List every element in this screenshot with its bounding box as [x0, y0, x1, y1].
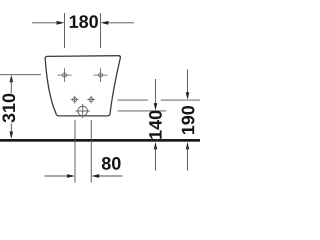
dim 190: lower arrowhead (below floor, points up) [186, 142, 190, 149]
lower right fixing hole crosshair [87, 96, 95, 104]
upper left mounting hole crosshair [58, 68, 72, 82]
dim 180: left arrow shaft [32, 22, 58, 24]
dim 80: left arrowhead [67, 174, 75, 178]
dim 180: left arrowhead [57, 21, 65, 25]
dim 180: right arrow shaft [108, 22, 134, 24]
dim 140: leader line [118, 110, 167, 112]
dim 140: upper shaft [155, 79, 157, 104]
dim 190: lower shaft [187, 147, 189, 171]
dim 190: leader line right segment [161, 99, 200, 101]
dim 180: value label [70, 15, 98, 28]
dim 80: left arrow shaft [45, 175, 69, 177]
dim 310: top leader line [0, 74, 41, 76]
dim 190: leader line left segment (from body edge) [118, 99, 149, 101]
lower left fixing hole crosshair [71, 96, 79, 104]
dim 80: right arrowhead [91, 174, 99, 178]
bidet body outline [45, 56, 120, 116]
dim 80: right extension line [90, 120, 92, 183]
dim 310: lower shaft [10, 124, 12, 135]
dim 310: value label [2, 94, 15, 123]
dim 190: upper shaft [187, 69, 189, 93]
dim 140: lower shaft [155, 147, 157, 171]
dim 80: left extension line [74, 120, 76, 183]
dim 310: lower arrowhead [10, 132, 14, 139]
dim 180: right extension line [100, 13, 102, 48]
floor line [0, 139, 200, 142]
dim 180: right arrowhead [101, 21, 109, 25]
dim 140: value label [149, 111, 162, 139]
dim 190: value label [182, 106, 195, 134]
dim 80: right arrow shaft [99, 175, 122, 177]
dim 180: left extension line [64, 13, 66, 48]
dim 140: lower arrowhead (below floor, points up) [154, 142, 158, 149]
drain hole crosshair [75, 104, 90, 118]
dim 310: upper shaft [10, 80, 12, 93]
dim 190: upper arrowhead (points down) [186, 92, 190, 99]
dim 140: upper arrowhead (points down) [154, 103, 158, 110]
dim 310: upper arrowhead [10, 75, 14, 82]
upper right mounting hole crosshair [94, 68, 108, 82]
dim 80: value label [102, 157, 121, 170]
